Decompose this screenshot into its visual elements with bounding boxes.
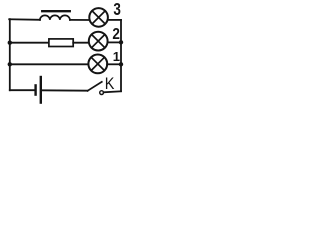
wire coil to lamp 3: [70, 19, 90, 21]
wire battery to switch: [42, 89, 88, 91]
switch K contact circle: [100, 91, 104, 95]
inductor L1 coil: [40, 15, 70, 20]
wire lamp 3 to right rail: [108, 19, 121, 21]
lamp EL1 circle: [88, 55, 107, 74]
battery GB1 long plate (positive): [40, 77, 42, 103]
resistor R1 body: [49, 39, 73, 47]
svg-text:K: K: [105, 75, 115, 93]
svg-text:3: 3: [113, 0, 121, 19]
lamp EL3 cross: [92, 11, 105, 24]
wire switch to right rail: [104, 91, 121, 92]
lamp EL2 circle: [89, 32, 108, 51]
wire right vertical rail: [120, 20, 122, 91]
switch K blade: [88, 82, 102, 91]
node B (left rail / lamp1 branch junction): [8, 62, 12, 66]
node D (right rail / lamp1 junction): [119, 62, 123, 66]
wire lamp 2 to right rail: [108, 41, 122, 43]
svg-text:2: 2: [112, 26, 120, 43]
inductor L1 core bar: [42, 10, 70, 12]
lamp EL1 cross: [91, 57, 104, 70]
lamp EL3 circle: [89, 8, 108, 27]
wire top branch left segment: [9, 18, 40, 21]
battery GB1 short plate (negative): [34, 85, 36, 94]
node C (right rail / lamp2 junction): [119, 40, 123, 44]
wire resistor branch left segment: [10, 42, 49, 44]
wire resistor to lamp 2: [73, 42, 89, 44]
node A (left rail / resistor branch junction): [8, 41, 12, 45]
wire lamp 1 to right rail: [107, 63, 121, 65]
svg-text:1: 1: [113, 49, 120, 64]
wire left vertical rail: [9, 19, 11, 90]
lamp EL2 cross: [92, 35, 105, 48]
wire lamp 1 branch left segment: [10, 63, 89, 65]
wire bottom branch left segment: [10, 89, 35, 91]
